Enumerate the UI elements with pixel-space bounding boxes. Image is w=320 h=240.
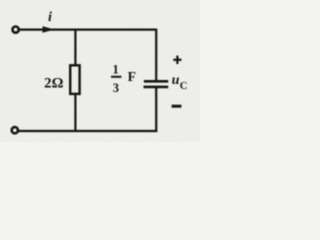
svg-text:F: F — [128, 69, 136, 84]
terminal T2 (bottom-left input, open circle) — [12, 127, 18, 133]
svg-text:3: 3 — [113, 81, 119, 95]
wire (top rail down to resistor top) — [74, 30, 76, 66]
wire (resistor bottom down to bottom rail) — [74, 94, 76, 131]
wire (capacitor bottom plate down to bottom rail) — [155, 88, 157, 133]
svg-text:2Ω: 2Ω — [44, 76, 63, 92]
terminal T1 (top-left input, open circle) — [13, 27, 19, 33]
svg-text:1: 1 — [112, 63, 118, 77]
svg-text:i: i — [48, 10, 52, 25]
wire (bottom rail, T2 to right branch) — [19, 130, 158, 132]
wire (top rail down to capacitor top plate) — [155, 29, 157, 81]
polarity mark - of uC — [172, 105, 182, 108]
wire (top rail, T1 to right branch) — [19, 28, 157, 30]
polarity mark + of uC — [173, 59, 181, 61]
svg-text:u: u — [172, 73, 180, 88]
capacitor C1 (1/3 F, parallel plates) — [144, 80, 168, 83]
svg-text:C: C — [180, 81, 188, 92]
current arrow for i — [43, 26, 55, 33]
value label fraction bar of 1/3 F — [111, 76, 121, 78]
resistor R1 (2 ohm, box symbol) — [70, 65, 79, 94]
